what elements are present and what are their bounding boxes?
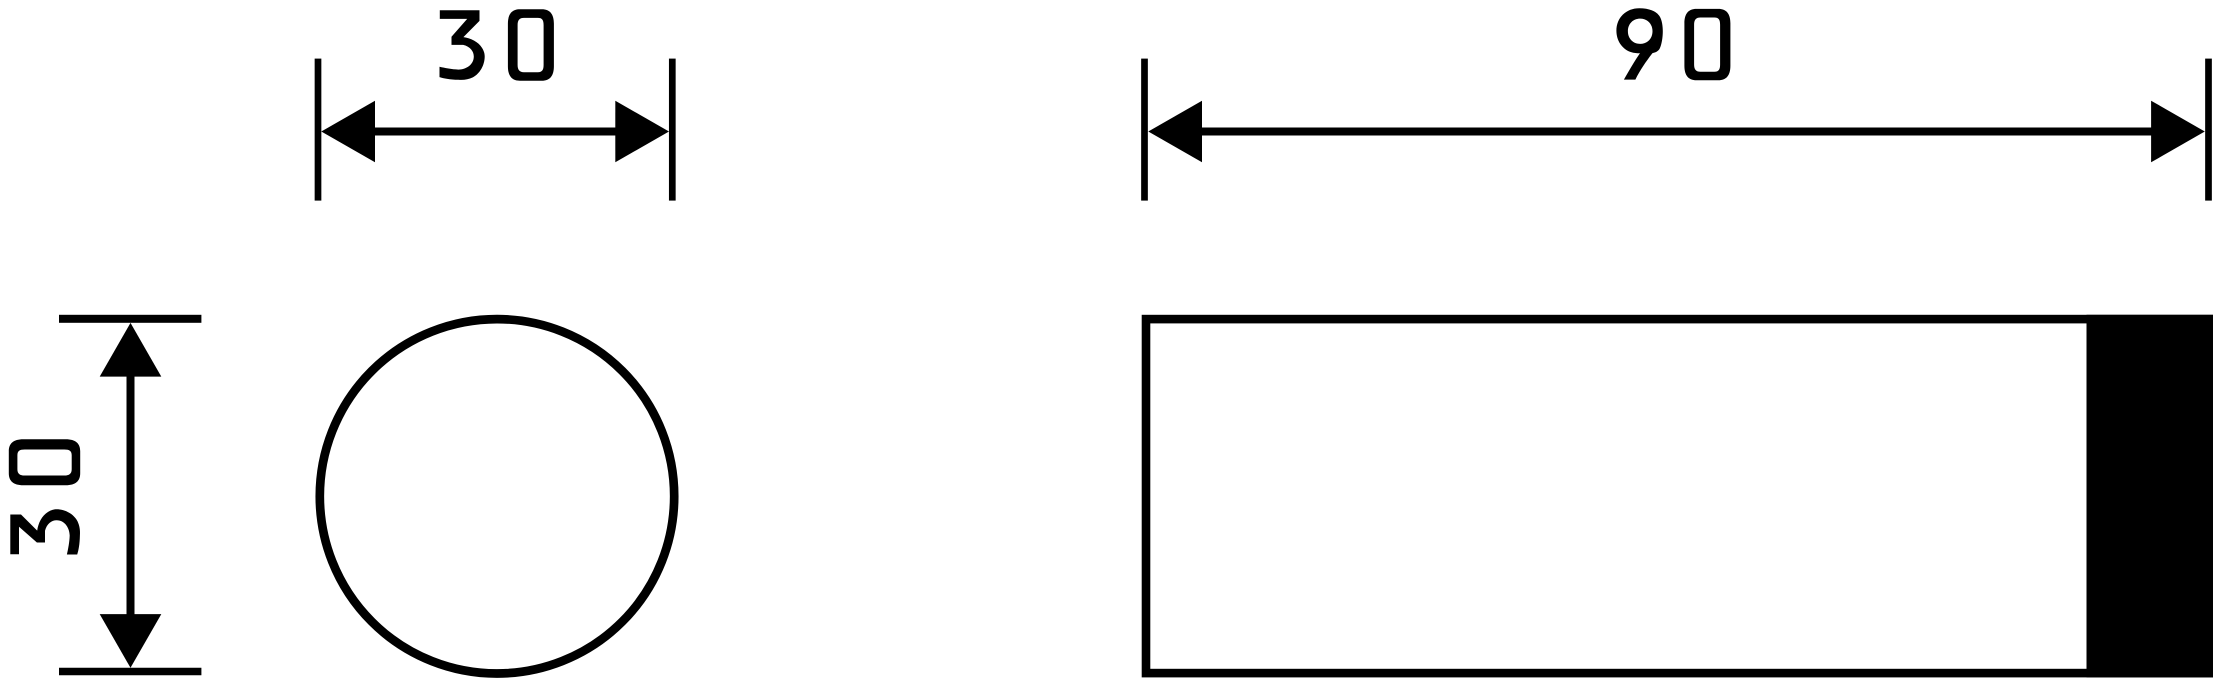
extension line left	[1141, 59, 1148, 201]
dimension text 90	[1616, 8, 1662, 79]
dimension line	[1199, 128, 2154, 136]
arrowhead down	[100, 614, 162, 668]
arrowhead left	[1148, 101, 1202, 163]
extension line right	[669, 59, 676, 201]
arrowhead right	[615, 101, 669, 163]
dimension line	[372, 128, 618, 136]
extension tick top	[59, 315, 201, 323]
extension tick bottom	[59, 668, 201, 676]
arrowhead left	[321, 101, 375, 163]
extension line left	[315, 59, 322, 201]
arrowhead up	[100, 323, 162, 377]
dimension line vertical	[127, 374, 135, 617]
black band at right end	[2091, 319, 2209, 673]
dimension text 30	[440, 10, 485, 80]
rotated dimension text 30	[10, 509, 80, 554]
extension line right	[2205, 59, 2212, 201]
arrowhead right	[2151, 101, 2205, 163]
